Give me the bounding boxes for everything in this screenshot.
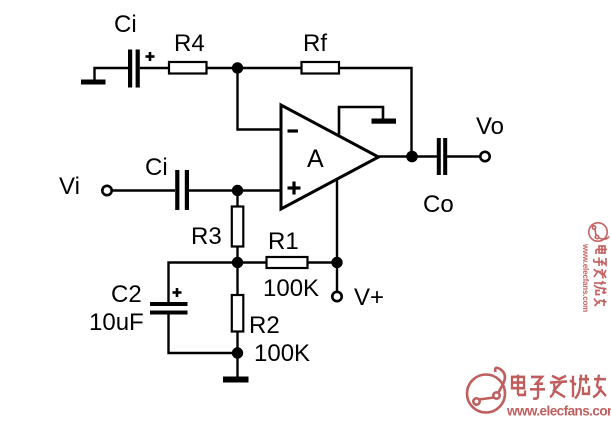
wire node B down to R3 (236, 191, 238, 208)
svg-text:Ci: Ci (114, 11, 137, 38)
wire node C to R1 (238, 261, 267, 263)
svg-text:C2: C2 (111, 281, 142, 308)
svg-text:A: A (307, 145, 324, 173)
svg-text:R2: R2 (249, 312, 280, 339)
svg-text:100K: 100K (254, 340, 310, 367)
node OUT junction dot (406, 151, 418, 163)
ground bottom (223, 377, 249, 383)
terminal Vo (480, 152, 489, 161)
svg-text:R3: R3 (191, 223, 222, 250)
wire Ci to R4 (140, 67, 169, 69)
wire Rf to output column (339, 68, 412, 157)
wire R1 to node D (308, 261, 338, 263)
svg-text:10uF: 10uF (89, 309, 144, 336)
wire node D to V+ terminal (336, 263, 338, 293)
wire node A down to inverting input (238, 68, 282, 130)
watermark vertical (right edge), rotated 90deg (581, 223, 609, 312)
capacitor Ci (top) (128, 50, 140, 88)
wire node A to Rf (237, 67, 301, 69)
wire R4 to node A (207, 67, 238, 69)
svg-text:100K: 100K (263, 275, 319, 302)
capacitor Co (437, 138, 447, 175)
node B junction dot (232, 185, 243, 196)
terminal Vi (102, 186, 111, 195)
ground flag above op-amp (339, 107, 396, 135)
resistor R4 (169, 62, 207, 74)
svg-text:Co: Co (423, 191, 454, 218)
terminal V+ (332, 292, 341, 301)
plus input sign (288, 182, 301, 195)
wire R2 to node E (236, 332, 238, 354)
minus input sign (288, 129, 299, 132)
wire node C down to R2 (236, 263, 238, 296)
wire node E to ground (236, 353, 238, 377)
node C junction dot (232, 257, 243, 268)
node D junction dot (331, 257, 342, 268)
svg-text:Ci: Ci (145, 154, 168, 181)
svg-text:R4: R4 (174, 30, 205, 57)
svg-text:www.elecfans.com: www.elecfans.com (506, 404, 611, 419)
svg-text:R1: R1 (268, 228, 299, 255)
capacitor C2 (150, 302, 188, 315)
wire op-amp V+ pin down to node D (336, 180, 338, 263)
resistor Rf (302, 62, 340, 74)
watermark logo (bottom right) (467, 368, 505, 413)
wire op-amp output to node OUT (379, 155, 413, 157)
capacitor Ci (input) (175, 170, 189, 210)
wire Vi to Ci (112, 189, 175, 191)
polarity + of C2 (173, 288, 182, 297)
op-amp U1 triangle (281, 105, 379, 209)
svg-text:Vo: Vo (476, 113, 504, 140)
resistor R1 (267, 257, 308, 268)
resistor R3 (232, 207, 244, 247)
polarity + of Ci top (146, 52, 155, 61)
node E junction dot (232, 347, 243, 358)
svg-text:V+: V+ (354, 284, 384, 311)
wire node C to C2 top (169, 263, 238, 303)
node A junction dot (232, 62, 243, 73)
watermark text 电子发烧友 (bottom right) (512, 375, 606, 399)
wire Co to Vo terminal (447, 155, 480, 157)
svg-text:Rf: Rf (303, 30, 327, 57)
svg-text:www.elecfans.com: www.elecfans.com (581, 243, 590, 312)
wire Ci to noninverting input (189, 189, 281, 191)
svg-text:Vi: Vi (59, 173, 80, 200)
ground top-left (81, 68, 128, 85)
wire R3 to node C (236, 247, 238, 263)
wire C2 bottom to node E (169, 315, 238, 354)
wire node OUT to Co (412, 155, 437, 157)
resistor R2 (232, 295, 244, 332)
